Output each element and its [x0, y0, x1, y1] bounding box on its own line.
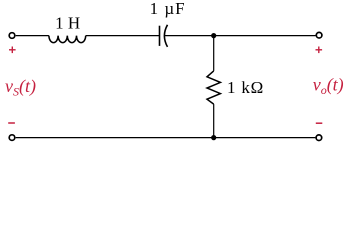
terminal T3 bottom-left: [9, 135, 15, 141]
wire resistor to node B: [213, 104, 215, 138]
terminal T2 top-right: [316, 32, 322, 38]
wire bottom rail: [16, 137, 316, 139]
wire node A to resistor: [213, 36, 215, 71]
inductor L1 1 H: [49, 36, 86, 43]
node B bottom junction: [211, 135, 216, 140]
resistor R1 1 kOhm: [207, 71, 220, 104]
svg-text:vS(t): vS(t): [5, 76, 36, 99]
capacitor C1 1 uF: [160, 25, 168, 47]
terminal T1 top-left: [9, 33, 15, 39]
terminal T4 bottom-right: [316, 135, 322, 141]
node A top junction: [211, 33, 216, 38]
svg-text:1 µF: 1 µF: [150, 0, 186, 18]
+ polarity right: [316, 47, 323, 54]
wire capacitor to top-right terminal: [165, 35, 316, 37]
- polarity left: [8, 122, 15, 124]
svg-text:vo(t): vo(t): [313, 74, 344, 97]
wire inductor to capacitor: [86, 35, 160, 37]
- polarity right: [316, 122, 323, 124]
wire top-left: [16, 35, 49, 37]
+ polarity left: [9, 47, 16, 54]
svg-text:1 kΩ: 1 kΩ: [227, 78, 264, 97]
svg-text:1 H: 1 H: [55, 13, 80, 32]
